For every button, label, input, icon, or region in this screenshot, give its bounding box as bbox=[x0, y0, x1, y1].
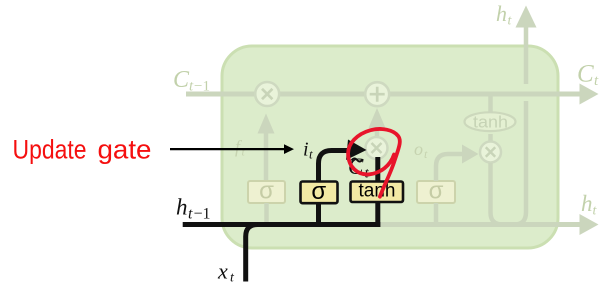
h_{t-1} wire (thick black) bbox=[183, 222, 381, 227]
LSTM cell body (faded) bbox=[222, 46, 558, 248]
faded h line continuing right bbox=[379, 222, 581, 227]
svg-text:x: x bbox=[217, 259, 228, 284]
annotation arrow from label bbox=[170, 144, 294, 154]
svg-text:h: h bbox=[496, 1, 507, 26]
wire tanh box up to product multiply bbox=[375, 157, 380, 182]
svg-text:C: C bbox=[173, 67, 190, 93]
wire tanh ellipse to output multiply (faded) bbox=[488, 134, 493, 141]
svg-text:i: i bbox=[303, 139, 309, 161]
Ctilde_t label bbox=[348, 154, 370, 182]
forget multiply circle (faded) bbox=[255, 82, 279, 106]
svg-text:t: t bbox=[309, 147, 313, 162]
i_t arrowhead pointing at product multiply bbox=[346, 140, 367, 161]
add circle (faded) bbox=[365, 82, 389, 106]
svg-text:σ: σ bbox=[259, 178, 274, 205]
h_t right arrowhead (faded) bbox=[580, 214, 599, 235]
svg-text:Update: Update bbox=[13, 135, 87, 165]
h_t up arrowhead (faded) bbox=[516, 6, 537, 28]
product multiply circle i*Ctilde (faded, circled in red) bbox=[366, 137, 388, 159]
svg-text:tanh: tanh bbox=[473, 112, 508, 131]
svg-text:tanh: tanh bbox=[359, 180, 396, 201]
forget gate arrow up into multiply (faded) bbox=[258, 114, 275, 182]
forget branch wire (faded) bbox=[264, 203, 269, 222]
svg-text:σ: σ bbox=[429, 178, 444, 205]
svg-text:−1: −1 bbox=[194, 79, 210, 95]
wire tanh box down to h line bbox=[375, 202, 380, 227]
svg-text:gate: gate bbox=[98, 135, 152, 165]
forget sigma box (faded) bbox=[248, 178, 285, 205]
svg-text:h: h bbox=[176, 195, 188, 220]
input sigma box U_i bbox=[301, 178, 338, 205]
output sigma box (faded) bbox=[417, 178, 455, 205]
output multiply circle (faded) bbox=[480, 142, 501, 163]
input gate branch wire bbox=[316, 204, 321, 222]
red hand-drawn circle around product multiply bbox=[348, 129, 400, 197]
svg-text:−1: −1 bbox=[194, 206, 211, 223]
tanh ellipse (faded) bbox=[465, 112, 516, 131]
arrow up into add circle (faded) bbox=[369, 108, 386, 137]
svg-text:C: C bbox=[577, 61, 594, 88]
tanh box (candidate layer) bbox=[351, 180, 404, 202]
cell-state output arrowhead C_t bbox=[580, 84, 599, 105]
cell-state line C (faded) bbox=[186, 92, 581, 97]
output branch wire (faded) bbox=[434, 203, 439, 222]
x_t wire joining h line bbox=[246, 225, 258, 282]
wire output multiply down to h line (faded) bbox=[491, 163, 503, 225]
output gate arrow to output multiply (faded) bbox=[436, 145, 479, 182]
svg-text:t: t bbox=[188, 206, 193, 223]
i_t wire from sigma up and right bbox=[319, 151, 350, 183]
svg-text:h: h bbox=[581, 191, 593, 216]
wire C line to tanh ellipse (faded) bbox=[488, 96, 493, 113]
h_t upward branch wire (faded, gap at C line crossing) bbox=[515, 28, 527, 225]
svg-text:o: o bbox=[414, 139, 423, 159]
